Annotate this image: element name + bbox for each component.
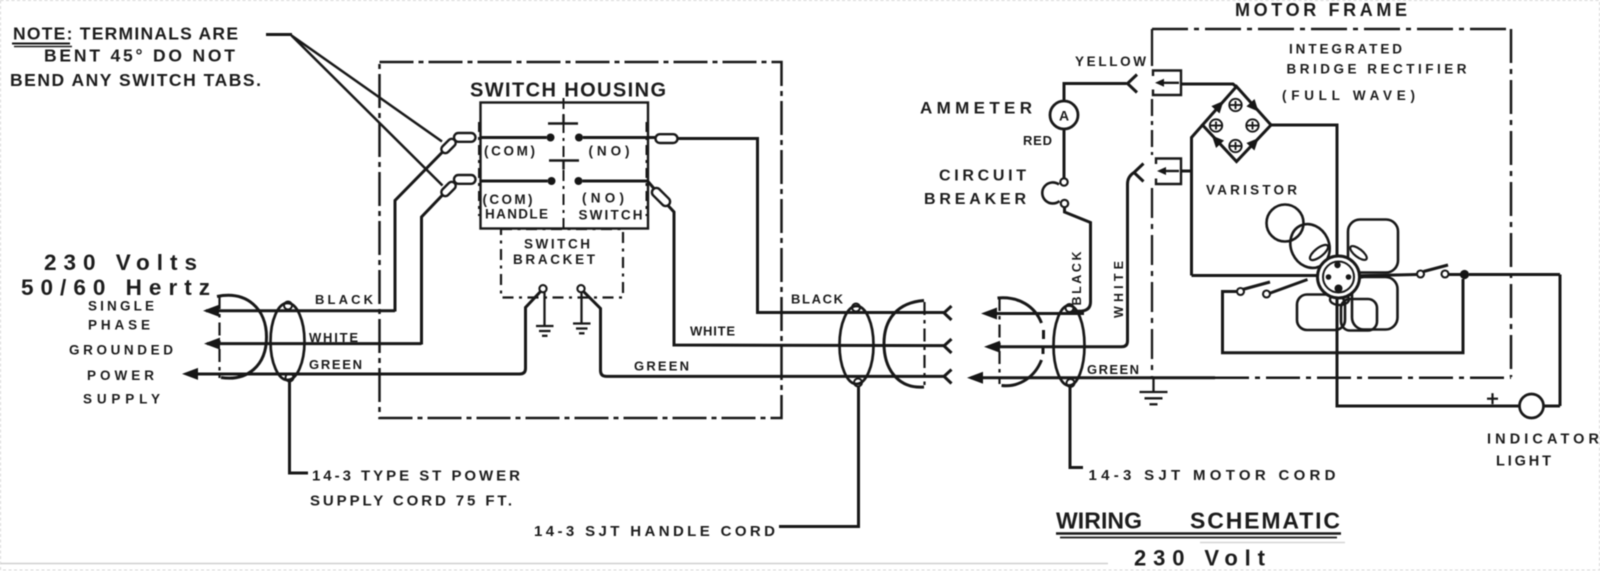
svg-text:RED: RED <box>1023 133 1052 148</box>
diode D3 <box>1246 119 1258 131</box>
wire row2 left <box>480 180 548 183</box>
black wire breaker to motor cord <box>1065 207 1091 311</box>
green wire right from bracket to handle cord <box>583 291 944 376</box>
svg-text:GROUNDED: GROUNDED <box>69 343 173 358</box>
supply white wire with arrow <box>207 342 422 345</box>
contact COM top <box>547 134 555 142</box>
connector receptacle J1 <box>1153 71 1181 96</box>
switch bracket (dashed box) <box>501 229 623 298</box>
wire J2 to varistor leg <box>1181 170 1192 173</box>
ground G2 <box>573 293 591 334</box>
note underline <box>12 43 70 45</box>
bracket contact right <box>577 285 584 292</box>
hub pin top <box>1334 262 1340 268</box>
svg-text:BEND ANY SWITCH TABS.: BEND ANY SWITCH TABS. <box>10 70 261 90</box>
red wire ammeter to breaker <box>1063 130 1066 179</box>
svg-text:LIGHT: LIGHT <box>1496 454 1551 470</box>
note leader horizontal <box>266 33 292 36</box>
connector chevron P2 <box>1134 164 1144 182</box>
svg-text:(NO): (NO) <box>589 144 630 159</box>
yellow wire from ammeter <box>1064 84 1127 101</box>
svg-text:INDICATOR: INDICATOR <box>1487 432 1600 448</box>
note text <box>10 24 261 91</box>
bent tab T1 <box>440 137 458 155</box>
connector chevron P1 <box>1128 75 1138 93</box>
fan petal bottom mid <box>1341 299 1377 331</box>
fan petal bottom left <box>1297 295 1345 331</box>
contact COM handle <box>548 177 556 185</box>
motor cord ellipse <box>1054 306 1085 386</box>
right rail down to indicator <box>1559 275 1562 407</box>
louver left <box>1308 242 1331 262</box>
svg-text:A: A <box>1059 108 1069 124</box>
wire from T4 to handle cord (white) <box>668 206 944 346</box>
motor centre drop wire <box>1337 298 1520 407</box>
toggle centerline <box>563 98 565 233</box>
start switch contact left <box>1237 288 1244 295</box>
motor body ellipse <box>1283 218 1336 275</box>
terminal lug T1 left <box>454 133 476 142</box>
switch S1 body <box>481 103 649 229</box>
svg-text:(FULL WAVE): (FULL WAVE) <box>1282 88 1415 103</box>
supply green wire arrow <box>182 368 198 380</box>
varistor left leg <box>1192 125 1203 276</box>
svg-text:14-3 SJT MOTOR CORD: 14-3 SJT MOTOR CORD <box>1089 467 1336 484</box>
motor cord white wire with arrow <box>988 345 1084 348</box>
note pointer line to upper terminal <box>292 36 443 142</box>
svg-text:BLACK: BLACK <box>791 292 844 307</box>
terminal lug T3 right <box>656 134 678 143</box>
svg-text:WIRING: WIRING <box>1056 508 1142 534</box>
frame ground symbol <box>1140 378 1168 405</box>
toggle upper tick <box>562 115 564 124</box>
supply cord sheath cut line <box>218 296 220 378</box>
terminal lug T2 left <box>454 175 476 184</box>
svg-text:SUPPLY: SUPPLY <box>83 392 160 407</box>
svg-text:(NO): (NO) <box>582 191 624 206</box>
green bond wire to frame <box>1084 376 1215 379</box>
fan petal right <box>1352 277 1398 330</box>
svg-text:WHITE: WHITE <box>309 330 358 345</box>
handle cord bottom eyelet <box>854 379 862 387</box>
handle cord top eyelet <box>852 304 860 312</box>
motor cord sheath cut line <box>998 298 1000 384</box>
supply cord leader <box>290 382 309 474</box>
svg-text:VARISTOR: VARISTOR <box>1206 183 1297 198</box>
ammeter M1 <box>1050 101 1078 129</box>
wire hub diagonal to start switch <box>1269 280 1308 294</box>
svg-text:WHITE: WHITE <box>690 324 735 339</box>
wire row1 left <box>480 136 547 139</box>
motor cord bottom eyelet <box>1067 379 1075 387</box>
svg-text:GREEN: GREEN <box>634 359 689 374</box>
handle cord white wire end chevron <box>944 339 952 353</box>
varistor bottom wire <box>1192 274 1318 277</box>
hub pin right <box>1346 274 1352 280</box>
svg-text:50/60 Hertz: 50/60 Hertz <box>21 275 210 300</box>
svg-text:BRACKET: BRACKET <box>513 252 596 267</box>
supply cord sheath arc <box>217 295 267 378</box>
svg-text:MOTOR FRAME: MOTOR FRAME <box>1235 0 1407 20</box>
toggle upper bar <box>548 122 578 125</box>
bridge rectifier BR1 diamond <box>1203 87 1272 162</box>
switch internal dash line left <box>478 122 480 216</box>
svg-text:WHITE: WHITE <box>1112 261 1126 318</box>
switch internal dash line right <box>646 122 648 216</box>
diode D1 <box>1229 99 1241 111</box>
svg-text:BLACK: BLACK <box>315 292 374 307</box>
start switch blade <box>1243 282 1271 290</box>
svg-text:SWITCH HOUSING: SWITCH HOUSING <box>470 80 666 102</box>
svg-text:YELLOW: YELLOW <box>1075 54 1146 69</box>
svg-text:NOTE: TERMINALS ARE: NOTE: TERMINALS ARE <box>13 24 238 44</box>
diode arrow BL <box>1208 132 1224 148</box>
motor hub <box>1318 256 1360 298</box>
svg-text:BREAKER: BREAKER <box>924 191 1026 208</box>
svg-text:SINGLE: SINGLE <box>88 299 154 314</box>
svg-text:230 Volts: 230 Volts <box>44 250 197 275</box>
svg-text:GREEN: GREEN <box>1087 362 1139 377</box>
centrifugal switch blade <box>1424 265 1449 272</box>
handle cord green chevron <box>944 370 952 384</box>
contact NO top <box>575 134 583 142</box>
wire row2 right <box>583 180 649 183</box>
wire junction to right rail <box>1469 273 1560 276</box>
fan petal top right <box>1348 220 1398 273</box>
svg-text:(COM): (COM) <box>483 192 533 207</box>
white wire chevron to motor cord <box>1085 173 1135 347</box>
centrifugal switch contact a <box>1417 271 1424 278</box>
ground G1 <box>536 293 554 336</box>
scan artifact line 2 <box>1200 542 1345 544</box>
wire white riser from T2 <box>422 195 443 345</box>
motor cord black wire with arrow <box>985 312 1084 315</box>
diode D4 <box>1229 140 1241 152</box>
polarity plus mark <box>1487 398 1498 400</box>
wire black riser from T1 <box>395 152 443 312</box>
bracket contact left <box>539 285 546 292</box>
motor hub chin <box>1330 294 1349 305</box>
wire contact b to junction <box>1449 273 1462 276</box>
wire from switch to T4 <box>648 182 654 189</box>
svg-text:PHASE: PHASE <box>88 318 150 333</box>
hub pin left <box>1326 274 1332 280</box>
diode arrow TL <box>1211 97 1227 113</box>
motor cord leader <box>1070 387 1083 468</box>
motor cord green wire with arrow <box>971 376 1084 379</box>
motor body circle <box>1267 205 1304 242</box>
wire row1 right <box>583 136 655 139</box>
contact NO handle <box>575 177 583 185</box>
start switch contact right <box>1263 291 1270 298</box>
svg-text:(COM): (COM) <box>484 144 535 159</box>
svg-text:BRIDGE RECTIFIER: BRIDGE RECTIFIER <box>1287 62 1467 77</box>
handle cord leader <box>779 387 859 527</box>
diode arrow TR <box>1246 99 1262 115</box>
motor frame top edge <box>1152 28 1511 31</box>
handle cord sheath arc <box>884 301 924 388</box>
toggle lower tick <box>562 161 564 170</box>
handle cord ellipse <box>840 306 874 384</box>
green wire left from bracket <box>195 291 541 374</box>
supply cord bottom eyelet <box>286 374 294 382</box>
handle cord sheath cut line <box>923 302 925 385</box>
wire J1 to rectifier <box>1181 84 1237 87</box>
motor frame bottom edge <box>1215 376 1511 379</box>
terminal lug T4 angled <box>650 186 672 208</box>
supply black wire with arrow <box>206 309 395 312</box>
title underline <box>1056 532 1341 534</box>
svg-text:SWITCH: SWITCH <box>579 208 643 223</box>
connector receptacle J2 <box>1156 159 1181 185</box>
centrifugal switch contact b <box>1442 271 1449 278</box>
svg-text:GREEN: GREEN <box>309 357 362 372</box>
supply cord top eyelet <box>284 302 292 310</box>
motor frame right edge <box>1510 29 1513 377</box>
svg-text:INTEGRATED: INTEGRATED <box>1289 42 1402 57</box>
motor cord top eyelet <box>1066 304 1074 312</box>
svg-text:BENT 45° DO NOT: BENT 45° DO NOT <box>44 46 235 66</box>
svg-text:230 Volt: 230 Volt <box>1134 546 1266 571</box>
svg-text:14-3 SJT HANDLE CORD: 14-3 SJT HANDLE CORD <box>534 523 775 540</box>
svg-text:14-3 TYPE ST POWER: 14-3 TYPE ST POWER <box>312 468 520 485</box>
wire from T3 to handle cord (black) <box>678 139 945 313</box>
junction node <box>1460 270 1469 279</box>
motor hub inner <box>1323 262 1354 293</box>
svg-text:SWITCH: SWITCH <box>524 237 590 252</box>
wire rectifier right to motor <box>1271 125 1337 257</box>
circuit breaker CB1 <box>1060 178 1067 185</box>
motor cord sheath arc <box>998 298 1042 323</box>
hub pin bottom <box>1335 285 1343 293</box>
svg-text:CIRCUIT: CIRCUIT <box>939 168 1026 185</box>
start switch loop wire <box>1223 279 1464 353</box>
bent tab T2 <box>440 180 458 198</box>
diode arrow BR <box>1246 134 1262 150</box>
svg-text:AMMETER: AMMETER <box>920 99 1032 118</box>
svg-text:SUPPLY CORD 75 FT.: SUPPLY CORD 75 FT. <box>310 493 512 510</box>
svg-text:POWER: POWER <box>87 368 154 383</box>
scan artifact line <box>0 563 1108 565</box>
svg-text:BLACK: BLACK <box>1070 252 1084 306</box>
svg-text:SCHEMATIC: SCHEMATIC <box>1190 508 1340 534</box>
motor frame left edge <box>1151 29 1153 377</box>
toggle lower bar <box>549 159 579 162</box>
louver right <box>1348 244 1369 263</box>
indicator light LT1 <box>1520 394 1544 418</box>
wire rail to indicator <box>1544 405 1561 408</box>
switch housing enclosure (phantom box) <box>380 62 782 418</box>
note pointer line to lower terminal <box>292 36 443 186</box>
supply cord ellipse <box>271 303 305 380</box>
diode D2 <box>1210 119 1222 131</box>
wire hub to centrifugal switch <box>1360 275 1418 276</box>
handle cord black chevron <box>944 306 952 320</box>
svg-text:HANDLE: HANDLE <box>485 207 548 222</box>
